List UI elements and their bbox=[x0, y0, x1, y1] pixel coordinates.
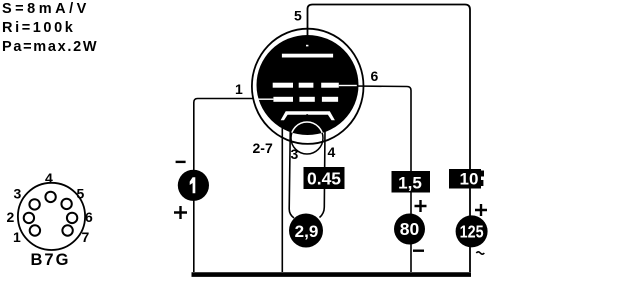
resistor 10 (anode) bbox=[449, 169, 481, 189]
supply 2,9 (heater) bbox=[289, 214, 323, 248]
wire cathode pins 2-7 down to bus bbox=[281, 123, 283, 272]
svg-text:2,9: 2,9 bbox=[295, 222, 319, 241]
svg-text:6: 6 bbox=[371, 68, 379, 84]
svg-text:5: 5 bbox=[294, 8, 302, 24]
grid row upper (pin 6) dashes bbox=[273, 83, 339, 88]
svg-text:125: 125 bbox=[460, 223, 484, 242]
svg-text:0.45: 0.45 bbox=[307, 169, 341, 189]
svg-text:5: 5 bbox=[77, 186, 85, 202]
svg-text:6: 6 bbox=[85, 209, 93, 225]
socket pin 3 bbox=[29, 199, 39, 209]
heater circle (white part inside disc) bbox=[291, 122, 323, 154]
heater circle (black part outside disc) bbox=[291, 122, 323, 154]
plus sign at 125 bbox=[475, 204, 487, 216]
resistor 1,5 (screen) bbox=[392, 171, 431, 193]
socket pin 7 bbox=[62, 225, 72, 235]
svg-text:B7G: B7G bbox=[31, 251, 71, 269]
svg-text:2: 2 bbox=[7, 209, 15, 225]
grid upper lead to pin6 (white inside disc) bbox=[339, 85, 357, 86]
svg-text:1: 1 bbox=[235, 81, 243, 97]
wire screen pin6 to 1,5 rail bbox=[354, 86, 411, 272]
grid lower lead to pin1 (white inside disc) bbox=[258, 99, 273, 100]
svg-text:1: 1 bbox=[13, 229, 21, 245]
svg-text:4: 4 bbox=[328, 144, 336, 160]
wire heater pin3 down to 2,9 supply bbox=[289, 128, 294, 218]
anode plate (white bar) bbox=[282, 54, 333, 58]
B7G socket outline bbox=[18, 183, 85, 250]
AC tilde at 125 bbox=[476, 252, 484, 254]
svg-text:Pa=max.2W: Pa=max.2W bbox=[2, 39, 98, 55]
tube black disc bbox=[257, 35, 359, 135]
grid row lower (pin 1) dashes bbox=[273, 97, 338, 102]
wire grid pin1 to meter rail bbox=[194, 99, 253, 273]
minus sign at 80 bbox=[413, 250, 424, 252]
bus ground return (thick bottom line) bbox=[192, 272, 472, 277]
cathode lead tick bbox=[306, 114, 308, 117]
resistor 0.45 (heater series) bbox=[304, 167, 345, 189]
socket pin 6 bbox=[67, 213, 77, 223]
minus sign at meter bbox=[176, 161, 186, 163]
plus sign at 80 bbox=[415, 200, 427, 212]
svg-text:3: 3 bbox=[291, 146, 299, 162]
supply 80 (screen voltage) bbox=[394, 214, 425, 245]
supply 125 (anode voltage) bbox=[456, 215, 488, 247]
socket pin 4 bbox=[45, 192, 55, 202]
socket pin 5 bbox=[61, 199, 71, 209]
wire heater pin4 down through 0.45 box to 2,9 supply bbox=[320, 129, 326, 218]
svg-text:1,5: 1,5 bbox=[398, 174, 422, 193]
svg-text:7: 7 bbox=[82, 229, 90, 245]
svg-text:80: 80 bbox=[400, 219, 420, 239]
tube envelope bbox=[252, 29, 364, 144]
svg-text:S=8mA/V: S=8mA/V bbox=[2, 1, 90, 17]
svg-text:10: 10 bbox=[460, 170, 479, 189]
svg-text:2-7: 2-7 bbox=[253, 140, 273, 156]
wire anode pin5 top to right rail bbox=[308, 5, 471, 273]
socket pin 2 bbox=[24, 213, 34, 223]
meter 1 (grid voltage) bbox=[178, 170, 209, 201]
svg-text:Ri=100k: Ri=100k bbox=[2, 20, 75, 36]
cathode (white hat) bbox=[281, 111, 335, 120]
svg-text:3: 3 bbox=[14, 186, 22, 202]
svg-text:4: 4 bbox=[45, 170, 53, 186]
socket pin 1 bbox=[30, 225, 40, 235]
plus sign at meter bbox=[174, 206, 187, 219]
anode lead dot bbox=[306, 45, 308, 47]
